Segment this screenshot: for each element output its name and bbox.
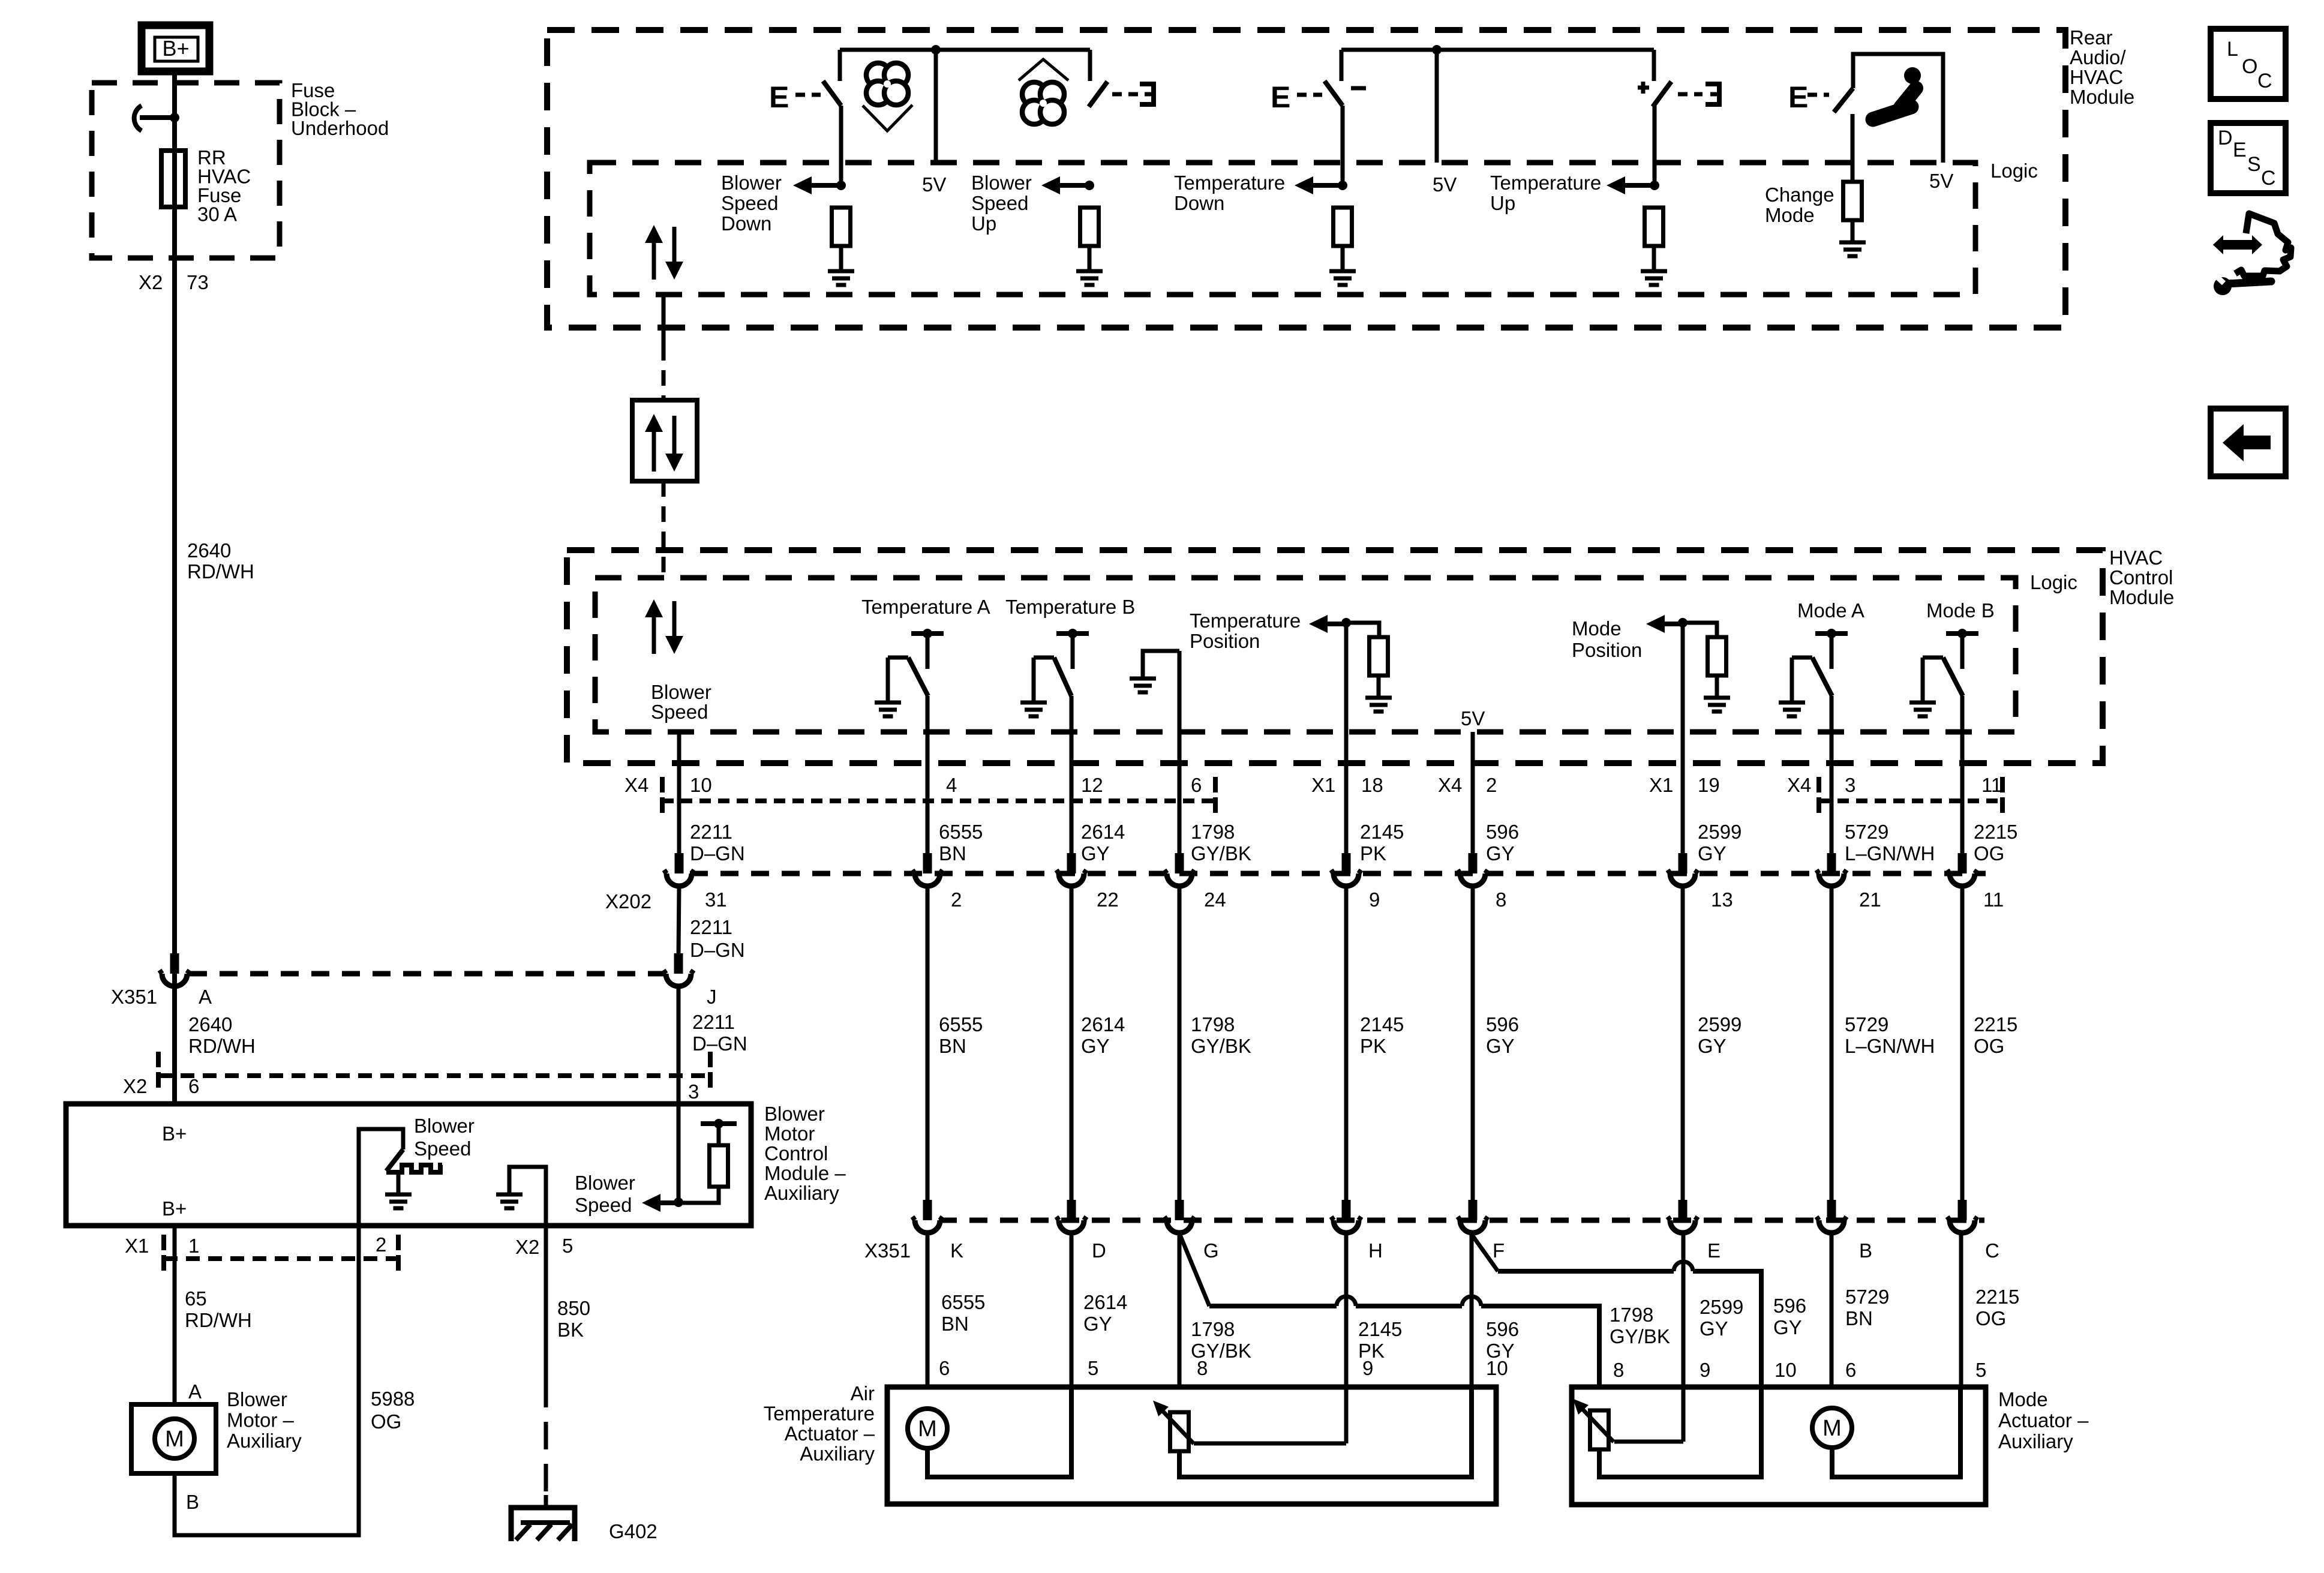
svg-text:D: D	[1092, 1239, 1106, 1262]
svg-text:Motor: Motor	[764, 1122, 815, 1145]
svg-text:Mode: Mode	[1998, 1388, 2048, 1410]
svg-text:Auxiliary: Auxiliary	[1998, 1430, 2073, 1452]
svg-text:2215: 2215	[1975, 1286, 2019, 1308]
svg-text:BN: BN	[939, 1035, 966, 1057]
svg-text:2215: 2215	[1974, 821, 2017, 843]
svg-text:Down: Down	[1174, 192, 1224, 214]
svg-text:2614: 2614	[1083, 1291, 1127, 1313]
svg-text:Up: Up	[971, 212, 996, 235]
svg-text:PK: PK	[1360, 1035, 1386, 1057]
svg-text:Temperature: Temperature	[1174, 172, 1285, 194]
svg-text:Mode B: Mode B	[1926, 599, 1995, 622]
svg-text:C: C	[1985, 1239, 1999, 1262]
svg-text:6: 6	[188, 1075, 199, 1097]
svg-text:Module: Module	[2070, 86, 2134, 108]
svg-text:Audio/: Audio/	[2070, 46, 2126, 68]
svg-text:65: 65	[185, 1287, 207, 1310]
svg-text:Blower: Blower	[764, 1103, 825, 1125]
svg-text:X4: X4	[1787, 774, 1811, 796]
svg-text:Auxiliary: Auxiliary	[800, 1443, 875, 1465]
svg-text:BN: BN	[1845, 1307, 1873, 1329]
svg-text:G402: G402	[609, 1520, 657, 1542]
svg-text:2640: 2640	[187, 539, 231, 562]
svg-text:12: 12	[1081, 774, 1103, 796]
svg-text:Blower: Blower	[971, 172, 1032, 194]
svg-text:Mode: Mode	[1572, 617, 1622, 640]
svg-text:X1: X1	[1311, 774, 1335, 796]
svg-text:2215: 2215	[1974, 1013, 2017, 1035]
svg-text:GY: GY	[1083, 1313, 1112, 1335]
svg-text:2211: 2211	[692, 1011, 735, 1033]
svg-text:9: 9	[1700, 1359, 1710, 1381]
svg-text:6: 6	[1191, 774, 1202, 796]
svg-text:L–GN/WH: L–GN/WH	[1845, 842, 1935, 864]
svg-text:6555: 6555	[939, 821, 983, 843]
svg-text:PK: PK	[1360, 842, 1386, 864]
svg-text:3: 3	[1845, 774, 1855, 796]
svg-text:10: 10	[1774, 1359, 1797, 1381]
svg-text:Control: Control	[2109, 566, 2173, 589]
svg-text:2599: 2599	[1698, 1013, 1742, 1035]
svg-text:2145: 2145	[1360, 821, 1404, 843]
svg-text:2: 2	[1486, 774, 1497, 796]
svg-text:2211: 2211	[690, 916, 732, 938]
svg-text:5729: 5729	[1845, 1013, 1888, 1035]
svg-text:13: 13	[1711, 888, 1733, 911]
svg-text:5V: 5V	[1433, 173, 1457, 196]
svg-text:A: A	[199, 986, 212, 1008]
svg-text:5: 5	[1088, 1357, 1098, 1379]
svg-text:BN: BN	[939, 842, 966, 864]
svg-text:X1: X1	[1649, 774, 1673, 796]
svg-text:GY: GY	[1773, 1316, 1802, 1338]
svg-text:X2: X2	[515, 1236, 539, 1258]
svg-text:596: 596	[1486, 821, 1519, 843]
svg-text:E: E	[1788, 80, 1808, 114]
svg-text:M: M	[918, 1416, 937, 1442]
svg-text:Logic: Logic	[2030, 571, 2077, 593]
svg-text:8: 8	[1496, 888, 1506, 911]
svg-text:Down: Down	[721, 212, 771, 235]
svg-text:8: 8	[1613, 1359, 1624, 1381]
svg-text:B+: B+	[162, 1122, 187, 1145]
svg-text:Logic: Logic	[1990, 160, 2038, 182]
svg-text:GY/BK: GY/BK	[1610, 1325, 1670, 1347]
svg-text:OG: OG	[1974, 1035, 2004, 1057]
svg-text:M: M	[1822, 1416, 1842, 1441]
svg-text:Actuator –: Actuator –	[785, 1422, 875, 1445]
svg-text:Mode: Mode	[1765, 204, 1815, 226]
svg-text:GY: GY	[1081, 1035, 1110, 1057]
svg-text:30 A: 30 A	[197, 203, 237, 226]
svg-text:G: G	[1203, 1239, 1219, 1262]
svg-text:X202: X202	[605, 890, 651, 912]
svg-text:BN: BN	[941, 1313, 969, 1335]
svg-text:1798: 1798	[1610, 1304, 1653, 1326]
svg-text:6: 6	[939, 1357, 950, 1379]
svg-text:E: E	[2233, 139, 2247, 161]
svg-text:Temperature: Temperature	[1190, 610, 1301, 632]
svg-text:D–GN: D–GN	[692, 1032, 747, 1055]
svg-text:Mode A: Mode A	[1797, 599, 1864, 622]
svg-text:B+: B+	[162, 36, 189, 61]
svg-text:X2: X2	[139, 271, 163, 293]
svg-text:GY/BK: GY/BK	[1191, 842, 1251, 864]
svg-text:GY: GY	[1081, 842, 1110, 864]
svg-text:X2: X2	[123, 1075, 147, 1097]
svg-text:2: 2	[951, 888, 962, 911]
svg-text:Blower: Blower	[414, 1115, 475, 1137]
svg-text:GY/BK: GY/BK	[1191, 1035, 1251, 1057]
svg-text:2640: 2640	[188, 1013, 232, 1035]
svg-text:3: 3	[688, 1080, 699, 1103]
svg-text:6555: 6555	[939, 1013, 983, 1035]
svg-text:B: B	[1859, 1239, 1872, 1262]
svg-text:L: L	[2227, 38, 2238, 61]
svg-text:11: 11	[1981, 774, 2002, 796]
svg-text:5V: 5V	[1929, 170, 1953, 192]
svg-text:GY: GY	[1486, 1035, 1515, 1057]
svg-text:Control: Control	[764, 1142, 828, 1164]
svg-text:RD/WH: RD/WH	[187, 560, 254, 583]
svg-text:Speed: Speed	[575, 1194, 632, 1216]
svg-text:D–GN: D–GN	[690, 842, 745, 864]
svg-text:5V: 5V	[922, 173, 946, 196]
svg-text:5729: 5729	[1845, 821, 1888, 843]
svg-text:B+: B+	[162, 1197, 187, 1220]
svg-text:2145: 2145	[1358, 1318, 1402, 1340]
svg-text:4: 4	[946, 774, 957, 796]
svg-text:Temperature: Temperature	[1490, 172, 1601, 194]
svg-text:Module –: Module –	[764, 1162, 846, 1184]
svg-text:GY: GY	[1700, 1317, 1728, 1340]
svg-text:X351: X351	[864, 1239, 911, 1262]
svg-text:Temperature: Temperature	[764, 1403, 875, 1425]
svg-text:5988: 5988	[371, 1388, 415, 1410]
svg-text:Auxiliary: Auxiliary	[764, 1182, 839, 1204]
svg-text:6: 6	[1845, 1359, 1856, 1381]
svg-text:22: 22	[1097, 888, 1119, 911]
svg-text:Speed: Speed	[721, 192, 778, 214]
svg-text:Temperature A: Temperature A	[861, 596, 990, 618]
svg-text:850: 850	[557, 1297, 590, 1319]
svg-text:1: 1	[188, 1235, 199, 1257]
svg-text:Speed: Speed	[971, 192, 1028, 214]
svg-text:9: 9	[1362, 1357, 1373, 1379]
svg-text:Position: Position	[1572, 639, 1642, 661]
svg-text:HVAC: HVAC	[2070, 66, 2123, 88]
svg-text:2211: 2211	[690, 821, 732, 843]
svg-text:D–GN: D–GN	[690, 939, 745, 961]
svg-text:F: F	[1493, 1239, 1505, 1262]
svg-text:B: B	[186, 1491, 199, 1513]
svg-text:K: K	[950, 1239, 963, 1262]
svg-text:596: 596	[1773, 1295, 1806, 1317]
svg-text:21: 21	[1859, 888, 1881, 911]
svg-text:10: 10	[1486, 1357, 1508, 1379]
svg-text:Temperature B: Temperature B	[1005, 596, 1135, 618]
svg-text:OG: OG	[1974, 842, 2004, 864]
svg-text:2: 2	[376, 1233, 386, 1256]
svg-text:2614: 2614	[1081, 821, 1125, 843]
svg-text:596: 596	[1486, 1013, 1519, 1035]
svg-text:9: 9	[1369, 888, 1380, 911]
svg-text:X4: X4	[1438, 774, 1462, 796]
svg-text:Auxiliary: Auxiliary	[227, 1430, 302, 1452]
svg-text:5729: 5729	[1845, 1286, 1889, 1308]
svg-text:RD/WH: RD/WH	[188, 1035, 256, 1057]
svg-text:Up: Up	[1490, 192, 1515, 214]
svg-text:OG: OG	[1975, 1307, 2006, 1329]
svg-text:8: 8	[1197, 1357, 1208, 1379]
svg-text:5: 5	[562, 1235, 573, 1257]
svg-text:2599: 2599	[1700, 1296, 1743, 1318]
svg-text:18: 18	[1361, 774, 1383, 796]
svg-text:BK: BK	[557, 1319, 584, 1341]
svg-text:Blower: Blower	[721, 172, 782, 194]
svg-text:HVAC: HVAC	[2109, 547, 2163, 569]
svg-text:596: 596	[1486, 1318, 1519, 1340]
svg-text:Change: Change	[1765, 184, 1834, 206]
svg-text:A: A	[188, 1380, 202, 1403]
svg-text:6555: 6555	[941, 1291, 985, 1313]
svg-text:Rear: Rear	[2070, 26, 2113, 49]
svg-text:24: 24	[1204, 888, 1226, 911]
svg-text:GY: GY	[1486, 842, 1515, 864]
svg-text:2145: 2145	[1360, 1013, 1404, 1035]
svg-text:Speed: Speed	[651, 701, 708, 723]
svg-text:Speed: Speed	[414, 1137, 471, 1160]
svg-text:1798: 1798	[1191, 1013, 1235, 1035]
svg-text:H: H	[1368, 1239, 1383, 1262]
svg-text:Underhood: Underhood	[291, 117, 389, 139]
svg-text:E: E	[1271, 80, 1290, 114]
svg-text:RD/WH: RD/WH	[185, 1309, 252, 1331]
svg-text:Blower: Blower	[227, 1388, 287, 1410]
svg-text:Blower: Blower	[575, 1172, 635, 1194]
svg-text:Position: Position	[1190, 630, 1260, 652]
svg-text:GY: GY	[1698, 1035, 1727, 1057]
svg-text:31: 31	[705, 888, 727, 911]
svg-text:E: E	[769, 80, 789, 114]
svg-text:X1: X1	[125, 1235, 149, 1257]
svg-text:S: S	[2247, 153, 2261, 176]
svg-text:L–GN/WH: L–GN/WH	[1845, 1035, 1935, 1057]
svg-text:Module: Module	[2109, 586, 2174, 608]
svg-text:Blower: Blower	[651, 681, 711, 703]
svg-text:M: M	[165, 1427, 184, 1452]
svg-text:5V: 5V	[1461, 707, 1485, 730]
svg-text:5: 5	[1975, 1359, 1986, 1381]
svg-text:O: O	[2242, 55, 2257, 78]
svg-text:C: C	[2261, 167, 2276, 190]
svg-text:10: 10	[690, 774, 712, 796]
svg-text:2599: 2599	[1698, 821, 1742, 843]
svg-text:2614: 2614	[1081, 1013, 1125, 1035]
svg-text:X4: X4	[624, 774, 648, 796]
svg-text:1798: 1798	[1191, 821, 1235, 843]
svg-text:Actuator –: Actuator –	[1998, 1409, 2089, 1431]
svg-text:C: C	[2257, 70, 2272, 92]
svg-text:X351: X351	[111, 986, 157, 1008]
svg-text:J: J	[707, 986, 717, 1008]
svg-text:Air: Air	[851, 1382, 875, 1404]
svg-text:19: 19	[1698, 774, 1720, 796]
svg-text:D: D	[2218, 127, 2233, 149]
svg-text:OG: OG	[371, 1410, 401, 1433]
svg-text:11: 11	[1983, 888, 2004, 911]
svg-text:Motor –: Motor –	[227, 1409, 295, 1431]
svg-text:73: 73	[187, 271, 209, 293]
svg-text:1798: 1798	[1191, 1318, 1235, 1340]
svg-text:E: E	[1707, 1239, 1721, 1262]
svg-text:GY: GY	[1698, 842, 1727, 864]
